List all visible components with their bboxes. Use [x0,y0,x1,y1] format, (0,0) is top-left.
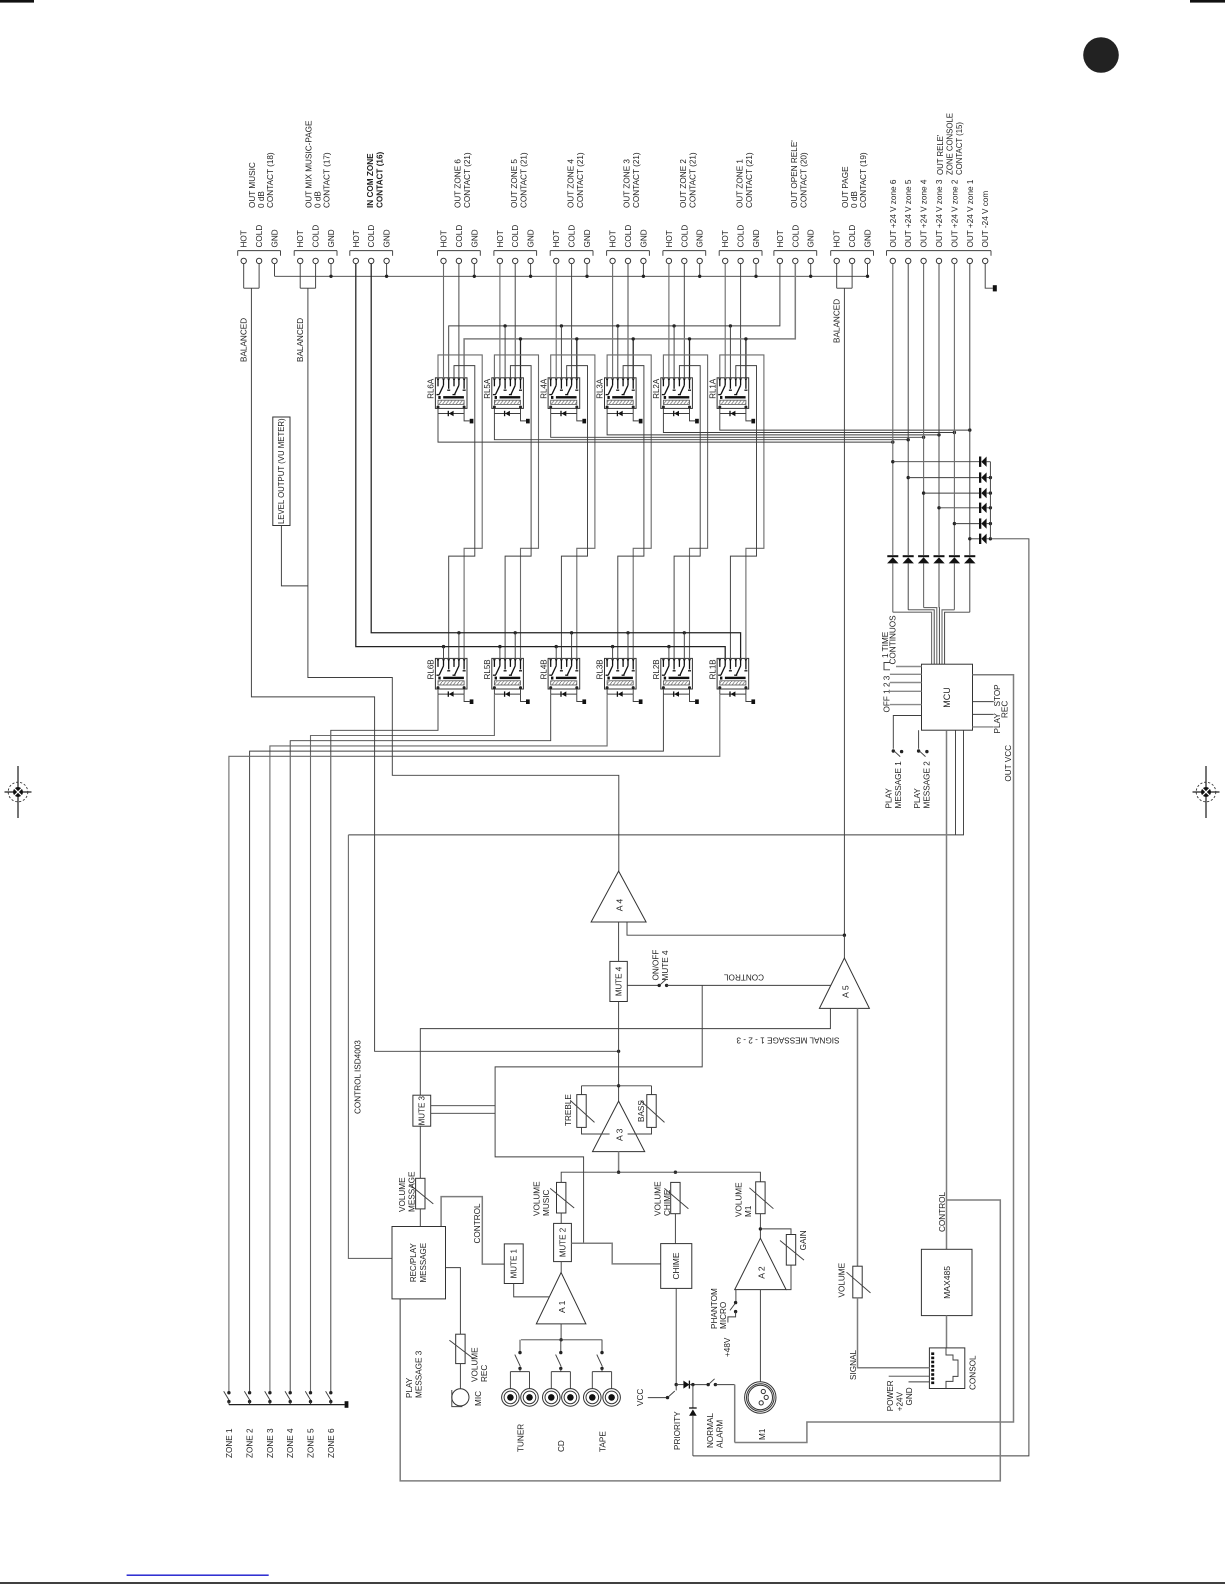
svg-text:VOLUME: VOLUME [470,1347,479,1382]
svg-text:CONTROL: CONTROL [724,972,764,981]
svg-text:COLD: COLD [568,225,577,248]
svg-text:OUT MUSIC: OUT MUSIC [248,162,257,208]
svg-text:ZONE 4: ZONE 4 [286,1428,295,1458]
svg-text:GND: GND [639,229,648,247]
svg-text:GND: GND [696,229,705,247]
svg-text:BASS: BASS [637,1100,646,1122]
svg-text:CD: CD [557,1440,566,1452]
svg-text:VOLUME: VOLUME [837,1262,846,1297]
svg-text:GND: GND [271,229,280,247]
svg-text:OUT +24 V zone 1: OUT +24 V zone 1 [966,179,975,247]
svg-text:REC/PLAY: REC/PLAY [409,1243,418,1283]
svg-text:+48V: +48V [723,1337,732,1357]
svg-text:MUTE 2: MUTE 2 [558,1227,567,1257]
svg-text:MAX485: MAX485 [942,1266,952,1299]
svg-text:RL5B: RL5B [483,659,492,679]
svg-text:A 3: A 3 [615,1128,625,1141]
svg-text:PHANTOM: PHANTOM [710,1288,719,1329]
svg-text:OUT ZONE 6: OUT ZONE 6 [454,159,463,208]
svg-text:0 dB: 0 dB [850,191,859,208]
svg-text:MUTE 1: MUTE 1 [510,1248,519,1278]
svg-text:HOT: HOT [496,230,505,247]
svg-text:OUT VCC: OUT VCC [1004,745,1013,782]
svg-text:ZONE 1: ZONE 1 [225,1428,234,1458]
svg-text:COLD: COLD [312,225,321,248]
svg-text:RL2A: RL2A [652,378,661,399]
svg-text:CONTACT (20): CONTACT (20) [800,152,809,208]
svg-text:A 1: A 1 [557,1300,567,1313]
svg-text:COLD: COLD [455,225,464,248]
svg-text:+24V: +24V [896,1391,905,1411]
svg-text:BALANCED: BALANCED [239,318,248,362]
svg-text:HOT: HOT [240,230,249,247]
svg-text:MUTE 4: MUTE 4 [661,950,670,980]
svg-text:CONSOL: CONSOL [969,1355,978,1390]
svg-text:IN COM ZONE: IN COM ZONE [366,153,375,208]
svg-text:ZONE 6: ZONE 6 [327,1428,336,1458]
svg-text:MIC: MIC [474,1391,483,1406]
svg-text:CONTACT (15): CONTACT (15) [955,122,964,175]
svg-text:PLAY: PLAY [993,713,1002,734]
svg-text:CONTACT (21): CONTACT (21) [463,152,472,208]
svg-text:CONTACT (21): CONTACT (21) [576,152,585,208]
svg-text:MUTE 4: MUTE 4 [614,966,623,996]
svg-text:CONTACT (21): CONTACT (21) [519,152,528,208]
svg-text:OUT RELE': OUT RELE' [936,134,945,175]
svg-text:CONTROL: CONTROL [473,1203,482,1243]
svg-text:0 dB: 0 dB [313,191,322,208]
svg-text:SIGNAL MESSAGE 1 - 2 - 3: SIGNAL MESSAGE 1 - 2 - 3 [736,1036,839,1045]
svg-text:GND: GND [905,1387,914,1405]
svg-text:HOT: HOT [776,230,785,247]
svg-text:RL1A: RL1A [708,378,717,399]
svg-text:CONTACT (21): CONTACT (21) [689,152,698,208]
svg-text:RL6A: RL6A [427,378,436,399]
svg-text:MICRO: MICRO [719,1302,728,1329]
svg-text:M1: M1 [758,1428,767,1440]
svg-text:RL2B: RL2B [652,659,661,679]
svg-text:RL6B: RL6B [427,659,436,679]
svg-text:ZONE 3: ZONE 3 [266,1428,275,1458]
svg-text:OUT ZONE 5: OUT ZONE 5 [510,159,519,208]
svg-text:CONTACT (19): CONTACT (19) [859,152,868,208]
svg-text:CONTACT (21): CONTACT (21) [632,152,641,208]
svg-text:CHIME: CHIME [671,1252,681,1279]
svg-text:ZONE 2: ZONE 2 [246,1428,255,1458]
svg-text:CONTINUOS: CONTINUOS [889,615,898,665]
svg-text:COLD: COLD [367,225,376,248]
svg-text:BALANCED: BALANCED [833,299,842,343]
svg-text:RL4A: RL4A [539,378,548,399]
svg-text:CONTACT (16): CONTACT (16) [375,151,384,208]
svg-text:MUTE 3: MUTE 3 [418,1095,427,1125]
svg-text:GND: GND [470,229,479,247]
svg-text:PLAY: PLAY [405,1377,414,1398]
svg-text:VOLUME: VOLUME [533,1181,542,1216]
svg-text:OUT OPEN RELE': OUT OPEN RELE' [790,140,799,208]
svg-text:A 2: A 2 [757,1266,767,1279]
svg-text:TUNER: TUNER [516,1424,525,1452]
svg-text:OUT +24 V zone 4: OUT +24 V zone 4 [920,179,929,247]
svg-text:M1: M1 [744,1205,753,1217]
svg-text:OUT ZONE 3: OUT ZONE 3 [623,159,632,208]
svg-text:VCC: VCC [636,1389,645,1406]
svg-text:MESSAGE 2: MESSAGE 2 [923,761,932,809]
svg-text:CONTACT (18): CONTACT (18) [266,152,275,208]
svg-text:COLD: COLD [680,225,689,248]
svg-text:PLAY: PLAY [885,788,894,809]
svg-text:ZONE 5: ZONE 5 [307,1428,316,1458]
svg-text:RL1B: RL1B [708,659,717,679]
svg-text:TREBLE: TREBLE [564,1094,573,1126]
svg-text:OUT ZONE 1: OUT ZONE 1 [735,159,744,208]
svg-text:A 5: A 5 [841,985,851,998]
svg-text:OUT +24 V zone 2: OUT +24 V zone 2 [950,179,959,247]
svg-text:0 dB: 0 dB [257,191,266,208]
svg-text:VOLUME: VOLUME [654,1181,663,1216]
svg-text:ZONE CONSOLE: ZONE CONSOLE [945,113,954,175]
svg-text:MCU: MCU [942,687,952,708]
svg-text:HOT: HOT [609,230,618,247]
svg-text:VOLUME: VOLUME [735,1182,744,1217]
svg-text:RL5A: RL5A [483,378,492,399]
svg-text:OUT +24 V zone 5: OUT +24 V zone 5 [904,179,913,247]
svg-text:MUSIC: MUSIC [542,1190,551,1216]
svg-text:CONTROL: CONTROL [938,1192,947,1232]
svg-text:ON/OFF: ON/OFF [651,950,660,981]
svg-text:MESSAGE 3: MESSAGE 3 [414,1350,423,1398]
svg-text:TAPE: TAPE [598,1431,607,1452]
svg-text:MESSAGE: MESSAGE [419,1243,428,1283]
svg-text:OUT PAGE: OUT PAGE [841,166,850,208]
svg-text:RL3B: RL3B [596,659,605,679]
svg-text:HOT: HOT [352,230,361,247]
svg-text:OUT ZONE 4: OUT ZONE 4 [566,159,575,208]
svg-text:LEVEL OUTPUT (VU METER): LEVEL OUTPUT (VU METER) [277,418,286,524]
svg-text:GND: GND [583,229,592,247]
svg-text:ALARM: ALARM [715,1420,724,1448]
svg-text:MESSAGE 1: MESSAGE 1 [894,761,903,809]
svg-text:COLD: COLD [791,225,800,248]
svg-text:CONTACT (21): CONTACT (21) [745,152,754,208]
svg-text:HOT: HOT [721,230,730,247]
svg-text:COLD: COLD [255,225,264,248]
svg-text:POWER: POWER [886,1380,895,1411]
svg-text:COLD: COLD [848,225,857,248]
svg-text:GND: GND [752,229,761,247]
svg-text:CHIME: CHIME [663,1189,672,1216]
svg-text:CONTROL ISD4003: CONTROL ISD4003 [354,1040,363,1114]
svg-text:RL4B: RL4B [539,659,548,679]
svg-text:HOT: HOT [833,230,842,247]
svg-text:HOT: HOT [296,230,305,247]
svg-text:GND: GND [383,229,392,247]
svg-text:GND: GND [864,229,873,247]
svg-text:OUT -24 V com: OUT -24 V com [981,191,990,248]
svg-text:COLD: COLD [624,225,633,248]
svg-text:VOLUME: VOLUME [398,1177,407,1212]
svg-text:HOT: HOT [552,230,561,247]
svg-text:RL3A: RL3A [596,378,605,399]
svg-text:MESSAGE: MESSAGE [407,1171,416,1212]
svg-text:GND: GND [527,229,536,247]
svg-text:COLD: COLD [511,225,520,248]
svg-text:A 4: A 4 [615,899,625,912]
svg-text:BALANCED: BALANCED [296,318,305,362]
svg-text:SIGNAL: SIGNAL [849,1350,858,1380]
svg-text:REC: REC [480,1365,489,1382]
svg-text:NORMAL: NORMAL [706,1413,715,1448]
svg-text:COLD: COLD [737,225,746,248]
svg-text:GND: GND [327,229,336,247]
svg-text:PRIORITY: PRIORITY [673,1411,682,1450]
svg-text:OFF 1 2 3: OFF 1 2 3 [883,675,892,712]
svg-text:HOT: HOT [440,230,449,247]
svg-text:HOT: HOT [665,230,674,247]
svg-text:GND: GND [807,229,816,247]
svg-text:OUT MIX MUSIC-PAGE: OUT MIX MUSIC-PAGE [304,120,313,208]
svg-text:OUT +24 V zone 6: OUT +24 V zone 6 [889,179,898,247]
svg-text:OUT +24 V zone 3: OUT +24 V zone 3 [935,179,944,247]
svg-text:OUT ZONE 2: OUT ZONE 2 [679,159,688,208]
svg-text:GAIN: GAIN [799,1230,808,1250]
svg-text:CONTACT (17): CONTACT (17) [322,152,331,208]
svg-text:PLAY: PLAY [913,788,922,809]
